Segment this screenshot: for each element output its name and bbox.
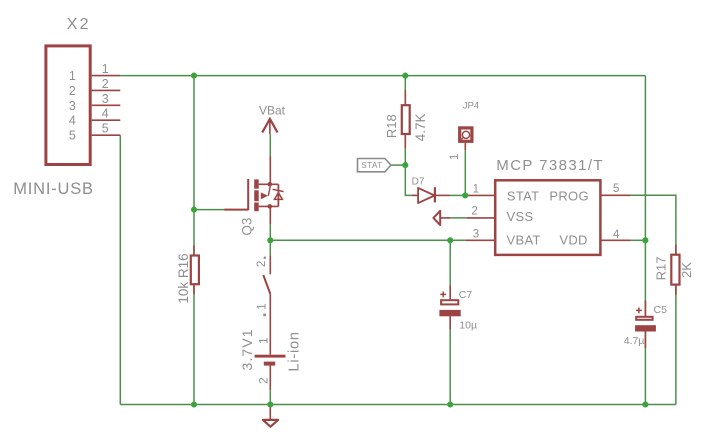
svg-text:MINI-USB: MINI-USB <box>13 180 94 198</box>
wire Q3 gate <box>194 209 224 211</box>
node GND / R16 <box>191 401 197 407</box>
battery pin1 stub <box>269 294 271 355</box>
capacitor C5 <box>624 304 667 347</box>
svg-text:PROG: PROG <box>549 188 588 203</box>
wire top rail VUSB <box>120 75 645 77</box>
svg-text:2K: 2K <box>679 262 694 278</box>
svg-text:1: 1 <box>449 154 461 160</box>
node GND / C7 <box>447 401 453 407</box>
C5 stubs <box>644 301 646 316</box>
svg-text:1: 1 <box>69 69 76 83</box>
svg-text:1: 1 <box>102 62 109 76</box>
jumper JP4 <box>460 128 472 141</box>
svg-text:STAT: STAT <box>361 161 382 170</box>
IC pin3 stub <box>466 239 495 241</box>
wire battery branch lower <box>269 390 271 404</box>
svg-text:3: 3 <box>473 228 479 240</box>
label STAT flag <box>358 159 391 172</box>
svg-text:VSS: VSS <box>507 209 534 224</box>
IC pin2 stub left part <box>440 217 450 219</box>
node VDD <box>642 237 648 243</box>
JP4 stub <box>464 143 466 150</box>
source dot <box>268 204 273 209</box>
svg-text:C5: C5 <box>654 304 668 316</box>
svg-text:2: 2 <box>256 261 268 267</box>
IC pin5 stub <box>600 194 630 196</box>
body diode triangle <box>274 193 282 200</box>
X2 pin stubs <box>92 75 121 77</box>
wire VBAT rail to pin3 <box>270 239 495 241</box>
wire JP4 down <box>464 150 466 195</box>
wire bottom rail GND <box>120 404 676 406</box>
wire D7 cathode to pin1 <box>450 194 466 196</box>
svg-text:C7: C7 <box>459 289 473 301</box>
ground arrow VSS <box>433 211 440 225</box>
wire STAT to D7 <box>405 165 412 195</box>
node top rail / R18 <box>402 73 408 79</box>
D7 cathode stub <box>436 194 450 196</box>
svg-text:3: 3 <box>69 99 76 113</box>
svg-text:2: 2 <box>471 205 477 217</box>
channel bars <box>254 179 259 211</box>
wire VBat to Q3 drain <box>269 134 271 184</box>
wire right vertical (VDD drop) <box>644 76 646 405</box>
svg-text:JP4: JP4 <box>463 100 479 111</box>
node STAT <box>402 162 408 168</box>
C7 stubs <box>449 286 451 300</box>
svg-text:5: 5 <box>102 122 109 136</box>
svg-text:5: 5 <box>69 129 76 143</box>
node GND / C5 <box>642 401 648 407</box>
svg-text:3: 3 <box>102 92 109 106</box>
svg-text:X2: X2 <box>67 16 91 33</box>
IC pin1 stub <box>466 194 495 196</box>
svg-text:MCP 73831/T: MCP 73831/T <box>496 157 604 174</box>
svg-text:VBat: VBat <box>259 104 286 118</box>
ic pin numbers <box>471 183 620 241</box>
svg-text:4.7µ: 4.7µ <box>624 335 645 347</box>
svg-text:4.7K: 4.7K <box>413 114 428 142</box>
R18 stubs <box>404 90 406 104</box>
wire VSS pin2 net <box>450 217 467 219</box>
svg-text:10k R16: 10k R16 <box>176 253 191 303</box>
svg-text:1: 1 <box>473 184 479 196</box>
wire Q3 source down <box>269 206 271 240</box>
node gate / R16 <box>191 207 197 213</box>
svg-text:2: 2 <box>102 77 109 91</box>
supply symbol VBat <box>259 104 286 133</box>
svg-text:Q3: Q3 <box>239 218 254 236</box>
svg-text:1: 1 <box>257 337 271 344</box>
svg-text:10µ: 10µ <box>459 320 477 332</box>
ground stub <box>269 405 271 420</box>
svg-text:4: 4 <box>613 229 620 241</box>
node VBAT / battery <box>267 237 273 243</box>
svg-text:VDD: VDD <box>559 232 587 247</box>
svg-text:4: 4 <box>69 114 76 128</box>
wire R18 branch <box>404 76 406 166</box>
wire battery branch upper <box>269 240 271 255</box>
svg-text:2: 2 <box>257 377 271 384</box>
svg-text:Li-ion: Li-ion <box>287 331 303 371</box>
connector X2 body <box>13 16 94 198</box>
diode D7 <box>418 187 435 203</box>
battery plus plate <box>255 355 286 358</box>
resistor R18 <box>384 105 428 141</box>
battery minus plate <box>264 362 275 366</box>
svg-text:5: 5 <box>613 183 619 195</box>
svg-text:D7: D7 <box>412 177 425 188</box>
transistor Q3 <box>224 179 284 211</box>
connector X2 outer pin numbers <box>102 62 109 136</box>
node pin1 <box>462 192 468 198</box>
red pin stubs overlay <box>92 76 676 420</box>
svg-text:3.7V1: 3.7V1 <box>239 328 255 370</box>
wire X2 pin5 drop <box>119 135 121 404</box>
resistor R16 <box>176 253 199 303</box>
bulk arrow <box>261 192 268 199</box>
connector X2 inner pin numbers <box>69 69 76 143</box>
R17 stubs <box>675 245 677 254</box>
VBat supply stub <box>269 119 271 134</box>
svg-text:R17: R17 <box>653 257 668 281</box>
ic pin names <box>507 188 589 247</box>
source connector <box>259 205 279 207</box>
node VBAT / C7 <box>447 237 453 243</box>
switch S1 blade <box>256 257 271 317</box>
resistor R17 <box>653 255 694 285</box>
node top rail / R16 <box>191 73 197 79</box>
battery pin2 stub <box>269 366 271 391</box>
svg-text:2: 2 <box>69 84 76 98</box>
node GND / battery <box>267 401 273 407</box>
ic U1 MCP73831 body <box>495 157 604 255</box>
IC pin2 stub right part <box>467 217 495 219</box>
IC pin4 stub <box>600 239 630 241</box>
svg-text:1: 1 <box>257 303 269 309</box>
wire pin5 to R17 <box>631 195 676 404</box>
svg-text:STAT: STAT <box>507 188 540 203</box>
R16 stubs <box>193 245 195 254</box>
plus sign C5 <box>636 308 642 314</box>
D7 anode stub <box>412 194 418 196</box>
drain dot <box>268 182 273 187</box>
wire STAT label net <box>391 164 405 166</box>
ground symbol <box>263 420 278 427</box>
wire R16 branch <box>193 76 195 405</box>
gate line <box>224 179 248 210</box>
drain connector <box>259 183 279 185</box>
svg-text:R18: R18 <box>384 114 399 138</box>
switch pin2 stub <box>269 255 271 274</box>
capacitor C7 <box>439 289 477 332</box>
svg-text:4: 4 <box>102 107 109 121</box>
body diode branch <box>277 184 279 206</box>
body diode cathode bar <box>273 189 284 191</box>
Q3 drain stub <box>269 156 271 184</box>
battery G1 <box>239 328 303 384</box>
svg-text:VBAT: VBAT <box>507 232 541 247</box>
plus sign C7 <box>440 292 446 298</box>
Q3 source stub <box>269 206 271 224</box>
wire C7 branch <box>449 240 451 404</box>
wire pin4 to VDD <box>631 239 646 241</box>
